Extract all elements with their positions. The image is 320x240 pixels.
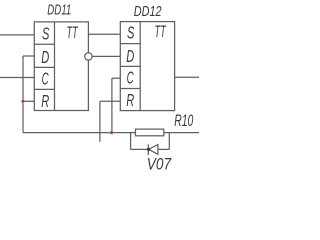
wire R input DD12 horizontal [100, 100, 120, 102]
DD12 D/C divider [120, 65, 140, 67]
wire S input DD11 [0, 34, 34, 36]
svg-text:DD12: DD12 [134, 3, 162, 20]
wire Q output DD11 to S DD12 [88, 33, 120, 35]
svg-text:DD11: DD11 [47, 2, 71, 18]
DD11 cell column divider [54, 22, 56, 111]
DD12 S/D divider [120, 43, 140, 45]
wire C input DD12 horizontal [112, 77, 120, 79]
wire output DD12 [175, 76, 199, 78]
wire Qbar output to D DD12 [92, 55, 120, 57]
flip-flop DD12 box [120, 22, 174, 111]
svg-text:C: C [127, 68, 134, 88]
svg-text:S: S [127, 23, 135, 43]
DD11 C/R divider [34, 88, 54, 90]
svg-text:R: R [126, 90, 134, 110]
diode VD7 triangle [149, 145, 158, 155]
svg-text:S: S [42, 24, 50, 44]
DD12 C/R divider [120, 88, 140, 90]
red junction dot bottom wire [109, 130, 114, 135]
wire vertical left bus [22, 56, 24, 133]
wire R input DD12 vertical [99, 101, 101, 142]
diode VD7 cathode bar [147, 144, 149, 155]
wire diode branch right vertical [168, 133, 170, 150]
svg-text:D: D [41, 47, 49, 67]
flip-flop DD11 box [34, 22, 88, 111]
wire diode branch left vertical [130, 133, 132, 150]
svg-text:TT: TT [67, 23, 79, 42]
wire D input stub DD11 [23, 55, 34, 57]
svg-text:D: D [126, 46, 134, 66]
svg-text:R: R [41, 91, 49, 111]
svg-text:R10: R10 [174, 112, 194, 130]
wire right of resistor [164, 132, 199, 134]
DD11 S/D divider [34, 43, 54, 45]
output inversion bubble DD11 [85, 53, 92, 60]
svg-text:C: C [42, 69, 49, 89]
junction dot diode apex [147, 148, 150, 151]
wire diode branch right horizontal [158, 148, 169, 150]
wire C input DD11 [0, 77, 34, 79]
wire C input DD12 vertical [111, 78, 113, 132]
DD12 cell column divider [139, 22, 141, 111]
DD11 D/C divider [34, 66, 54, 68]
red junction dot R input DD11 [21, 99, 26, 104]
svg-text:TT: TT [155, 23, 167, 41]
wire diode branch left horizontal [131, 148, 149, 150]
wire bottom feedback [23, 132, 136, 134]
svg-text:V07: V07 [147, 155, 172, 174]
resistor R10 [136, 129, 164, 136]
wire R input stub DD11 [23, 100, 34, 102]
